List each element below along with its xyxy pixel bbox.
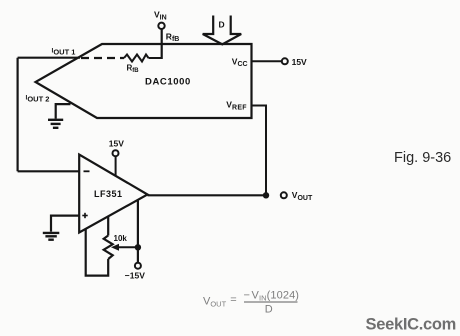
inverting input minus symbol bbox=[84, 170, 90, 172]
svg-text:−VIN(1024): −VIN(1024) bbox=[244, 290, 300, 303]
wire pot bottom loop to offset pin 2 bbox=[86, 229, 109, 275]
wire V- supply pin bbox=[137, 200, 139, 263]
figure caption Fig. 9-36 bbox=[394, 150, 451, 166]
label IOUT1 bbox=[52, 48, 76, 57]
svg-text:IOUT 1: IOUT 1 bbox=[52, 48, 76, 57]
label 10k bbox=[114, 234, 128, 243]
internal dashed link IOUT1 to RfB bbox=[81, 57, 124, 59]
svg-text:DAC1000: DAC1000 bbox=[145, 77, 191, 88]
terminal 15V op-amp bbox=[113, 150, 119, 156]
pin label VREF bbox=[226, 100, 247, 112]
svg-text:SeekIC.com: SeekIC.com bbox=[366, 316, 457, 334]
terminal VIN bbox=[158, 23, 164, 29]
svg-text:RfB: RfB bbox=[127, 64, 140, 75]
terminal VOUT bbox=[281, 192, 287, 198]
wire offset pin to pot bbox=[107, 217, 109, 236]
svg-text:15V: 15V bbox=[109, 139, 124, 149]
noninverting input plus symbol bbox=[82, 213, 87, 218]
wire IOUT2 to ground bbox=[56, 104, 71, 119]
svg-text:VCC: VCC bbox=[232, 56, 248, 68]
svg-text:LF351: LF351 bbox=[94, 189, 123, 199]
svg-text:15V: 15V bbox=[292, 57, 307, 67]
digital input bus arrow D bbox=[203, 16, 242, 45]
svg-text:Fig. 9-36: Fig. 9-36 bbox=[394, 150, 451, 166]
pot wiper arrow bbox=[111, 244, 138, 251]
svg-text:VREF: VREF bbox=[226, 100, 247, 112]
svg-text:10k: 10k bbox=[114, 234, 128, 243]
ground (op-amp noninverting) bbox=[43, 233, 60, 240]
ground (DAC IOUT2) bbox=[48, 120, 63, 128]
pin label VCC bbox=[232, 56, 248, 68]
svg-text:RfB: RfB bbox=[166, 31, 180, 43]
label DAC1000 bbox=[145, 77, 191, 88]
terminal -15V bbox=[135, 263, 141, 269]
svg-text:=: = bbox=[230, 294, 236, 306]
svg-text:VIN: VIN bbox=[154, 10, 167, 22]
resistor RfB zigzag bbox=[124, 55, 149, 62]
label LF351 bbox=[94, 189, 123, 199]
potentiometer 10k zigzag bbox=[104, 236, 113, 260]
svg-text:D: D bbox=[265, 303, 273, 315]
wire VREF to output node bbox=[252, 106, 267, 194]
wire feedback left vertical bbox=[17, 58, 19, 172]
wire noninverting input to ground bbox=[51, 216, 79, 232]
wire to inverting input bbox=[18, 170, 80, 172]
junction node wiper/V- bbox=[135, 244, 141, 250]
label -15V bbox=[125, 271, 145, 281]
label 15V (op-amp supply) bbox=[109, 139, 124, 149]
junction node output/VREF bbox=[263, 192, 269, 198]
label VIN bbox=[154, 10, 167, 22]
svg-text:VOUT: VOUT bbox=[292, 190, 313, 202]
svg-text:IOUT 2: IOUT 2 bbox=[26, 95, 50, 104]
svg-text:−15V: −15V bbox=[125, 271, 145, 281]
wire VCC to 15V terminal bbox=[252, 60, 282, 62]
op-amp U2 LF351 bbox=[79, 155, 147, 233]
wire VIN vertical bbox=[161, 29, 163, 59]
wire 15V supply to op-amp bbox=[115, 156, 117, 175]
wire RfB to VIN junction bbox=[149, 57, 162, 59]
label 15V bbox=[292, 57, 307, 67]
wire op-amp output bbox=[148, 194, 267, 196]
pin label RfB bbox=[166, 31, 180, 43]
label VOUT bbox=[292, 190, 313, 202]
terminal 15V bbox=[282, 58, 288, 64]
label RfB (resistor value) bbox=[127, 64, 140, 75]
svg-text:VOUT: VOUT bbox=[203, 296, 227, 309]
label IOUT2 bbox=[26, 95, 50, 104]
wire IOUT1 bbox=[18, 57, 80, 59]
formula VOUT = -VIN(1024)/D bbox=[203, 290, 299, 316]
watermark SeekIC.com bbox=[366, 316, 457, 334]
svg-text:D: D bbox=[219, 20, 225, 30]
label D bbox=[219, 20, 225, 30]
DAC U1 body DAC1000 bbox=[36, 44, 252, 118]
